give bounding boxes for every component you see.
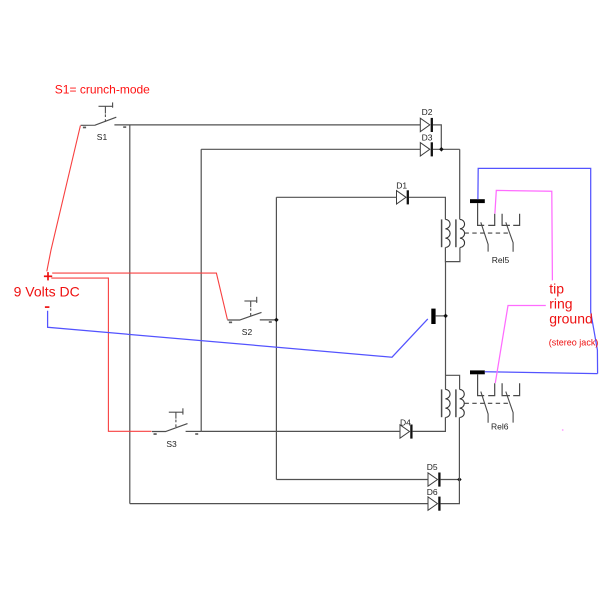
relay Rel6 fixed contact 1 (488, 383, 495, 395)
svg-text:ring: ring (549, 295, 572, 311)
wire blue: bottom ground run to Rel6 bar (485, 372, 598, 374)
battery + symbol (44, 272, 52, 280)
relay Rel6 coil (right winding core bar) (455, 389, 457, 417)
relay Rel6 lever 2 (506, 392, 513, 423)
wire: vertical x=201 from D3 line to S3 (200, 149, 202, 431)
wire pink: Rel5 contact to tip (495, 190, 553, 280)
svg-text:S1: S1 (97, 132, 108, 142)
relay Rel5 pole (478, 203, 485, 225)
relay Rel5 fixed contact 1 (488, 214, 495, 226)
wire: Rel5 coil bottoms joined (445, 248, 460, 262)
svg-text:tip: tip (549, 280, 564, 296)
node: D2/D3 junction (439, 147, 444, 152)
wire: step to Rel6 right coil top (446, 375, 460, 389)
wire red: + rail to S3 (51, 278, 151, 431)
diode D1 (396, 181, 408, 205)
switch S3 right contact wire (start of D4 line) (186, 430, 202, 432)
jack contact bar (center, ground) (431, 309, 435, 324)
wire: bottom rail to D6 anode (130, 503, 428, 505)
switch S2 actuator (244, 297, 257, 316)
wire: D3 line from S3 vertical (201, 148, 420, 150)
svg-text:S3: S3 (166, 439, 177, 449)
relay Rel6 contact-2 pole (502, 383, 510, 395)
pink dot artifact (562, 429, 564, 431)
relay Rel5 fixed contact 2 (513, 214, 519, 226)
relay Rel6 pole (478, 374, 485, 395)
diode D6 (427, 487, 440, 511)
svg-text:D2: D2 (422, 107, 433, 117)
switch S3 lever (152, 424, 188, 432)
diode D5 (427, 462, 440, 487)
svg-text:S2: S2 (242, 327, 253, 337)
relay Rel6 coil right winding (460, 389, 465, 417)
svg-text:9 Volts DC: 9 Volts DC (14, 284, 80, 300)
relay Rel5 coil (right winding core bar) (455, 219, 457, 247)
svg-text:D1: D1 (396, 181, 407, 191)
relay Rel6 coil (left winding core bar) (441, 389, 443, 417)
wire blue: battery - to center jack contact (48, 311, 428, 357)
switch S1 lever and contacts (81, 117, 117, 125)
node: D5 junction (457, 477, 462, 482)
wire red: + rail to S2 (52, 273, 227, 319)
switch S1 terminal pads (83, 127, 86, 129)
svg-text:(stereo jack): (stereo jack) (549, 338, 599, 348)
switch S2 lever (227, 312, 261, 320)
wire: D4 line from S3 vertical (201, 430, 400, 432)
jack contact bar (sleeve, Rel5) (470, 199, 485, 203)
svg-text:D6: D6 (427, 487, 438, 497)
relay Rel6 mechanical link (dashed) (465, 402, 510, 404)
relay Rel6 coil left winding (445, 389, 450, 417)
wire blue: Rel5 bar to right side ground run (478, 168, 598, 373)
wire: D2 cathode to D3 node (433, 125, 441, 149)
relay Rel5 mechanical link (dashed) (465, 232, 510, 234)
relay Rel5 coil right winding (460, 219, 465, 247)
wire: inner box left vertical (275, 197, 277, 479)
relay Rel5 lever 1 (481, 222, 488, 251)
relay Rel6 lever 1 (481, 392, 488, 423)
svg-text:S1= crunch-mode: S1= crunch-mode (55, 82, 150, 96)
wire pink: ring to Rel6 contact (495, 306, 546, 384)
switch S2 terminal pads (229, 322, 232, 324)
switch S3 actuator (169, 408, 184, 427)
battery - symbol (45, 306, 50, 308)
relay Rel5 lever 2 (506, 222, 513, 251)
wire: S1 right contact to D2 anode (top rail) (114, 124, 420, 126)
wire: node to Rel5 right coil top (459, 149, 461, 219)
svg-text:D5: D5 (427, 462, 438, 472)
svg-text:Rel6: Rel6 (491, 422, 509, 432)
wire: D1 cathode to Rel5 left coil top (409, 197, 445, 219)
wire: D3 cathode to Rel5 drop (433, 148, 460, 150)
jack contact bar (sleeve, Rel6) (470, 370, 485, 374)
wire: D5 line from box bottom (276, 479, 428, 481)
relay Rel6 fixed contact 2 (513, 383, 519, 395)
svg-text:ground: ground (549, 310, 593, 326)
node: center junction (443, 314, 448, 319)
wire: D5 cathode to junction (441, 479, 460, 481)
svg-text:D3: D3 (422, 133, 433, 143)
wire: center bar to vertical (436, 315, 446, 317)
wire: center vertical from Rel5 coils to Rel6 coils (445, 262, 447, 390)
diode D2 (420, 107, 432, 132)
switch S1 actuator (99, 102, 114, 122)
diode D4 (400, 417, 411, 438)
switch S3 terminal pads (154, 433, 157, 435)
svg-text:Rel5: Rel5 (492, 255, 510, 265)
switch S2 right contact wire (260, 319, 277, 321)
wire: left vertical rail from S1 contact down (129, 125, 131, 504)
wire: D6 cathode up through D5 junction to Rel6 right coil bottom (441, 418, 460, 504)
wire: D4 cathode to Rel6 left coil bottom (413, 418, 446, 432)
wire red: battery + to S1 (47, 126, 81, 272)
wire: D1 line from box left vertical (276, 196, 396, 198)
diode D3 (420, 133, 432, 157)
relay Rel5 coil left winding (445, 219, 450, 247)
relay Rel5 coil (left winding core bar) (441, 219, 443, 247)
relay Rel5 contact-2 pole (502, 214, 510, 226)
node: S2 to vertical junction (274, 318, 279, 323)
